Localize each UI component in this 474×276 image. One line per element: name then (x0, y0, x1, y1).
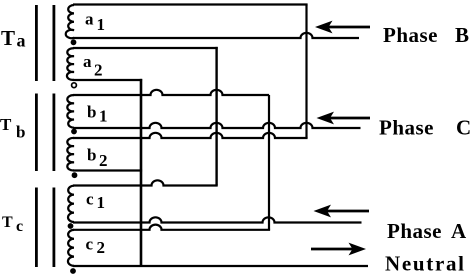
winding b1 (67, 95, 74, 128)
svg-text:b: b (87, 103, 96, 122)
wire a2 bottom to neutral bus V141 (73, 79, 142, 81)
wire a1 top to node V306 (73, 3, 308, 5)
svg-text:2: 2 (94, 61, 103, 80)
winding c2 (68, 230, 74, 266)
vertical V269 (b1 top to c2 top) (268, 95, 270, 230)
label Tb (0, 115, 25, 142)
svg-text:1: 1 (99, 107, 108, 126)
arrow Phase A (314, 205, 370, 218)
svg-text:a: a (85, 9, 94, 28)
svg-text:c: c (16, 218, 23, 235)
label b2 (87, 146, 108, 170)
label Ta (1, 26, 26, 51)
wire b1 top to V269, hops over V141 area and V216 (73, 90, 269, 95)
svg-text:c: c (86, 235, 94, 254)
wire Phase B (a1 bottom) with hop over V306 (73, 33, 359, 38)
svg-text:a: a (83, 52, 92, 71)
core Ta bars (35, 5, 55, 81)
vertical V306 (a1 top to b2 top) (305, 5, 307, 139)
arrow Neutral (points right) (311, 243, 366, 256)
svg-text:b: b (87, 146, 96, 165)
polarity dot b2 (72, 172, 78, 178)
svg-text:Phase: Phase (383, 23, 438, 47)
polarity dot c2 (70, 268, 76, 274)
winding b2 (67, 138, 74, 171)
svg-text:c: c (86, 190, 94, 209)
svg-text:Phase: Phase (379, 116, 434, 140)
svg-text:Neutral: Neutral (385, 252, 466, 276)
label a2 (83, 52, 103, 80)
svg-text:A: A (451, 219, 467, 243)
wire a2 top to node V216 (73, 47, 218, 49)
svg-text:a: a (17, 31, 26, 51)
svg-text:b: b (16, 123, 25, 142)
svg-text:2: 2 (99, 151, 108, 170)
wire b2 bottom to neutral bus V141 (73, 169, 142, 171)
svg-text:C: C (456, 116, 471, 140)
winding a2 (67, 48, 74, 80)
svg-text:B: B (455, 23, 469, 47)
wire Neutral (c2 bottom) (73, 265, 368, 267)
svg-text:T: T (0, 115, 12, 134)
wire Phase A (c1 bottom) hops over V141 area and V269 (73, 217, 362, 222)
wire c2 top to V269, hop near V141 (73, 225, 270, 230)
winding a1 (66, 5, 74, 38)
wire c1 top to V216, hop near V141 (73, 180, 218, 185)
svg-text:1: 1 (97, 15, 106, 34)
core Tb bars (35, 94, 55, 172)
wire b2 top from V306, hops over V269, V216, V141 area (73, 133, 308, 138)
neutral bus vertical V141 (140, 79, 143, 266)
core Tc bars (35, 188, 55, 268)
polarity dot b1 (71, 129, 77, 135)
label b1 (87, 103, 108, 126)
svg-text:1: 1 (97, 193, 106, 212)
arrow Phase C (317, 112, 371, 125)
svg-text:2: 2 (97, 238, 106, 257)
label a1 (85, 9, 105, 34)
svg-text:Phase: Phase (387, 219, 442, 243)
polarity dot a2 (open) (72, 83, 77, 88)
svg-text:T: T (1, 26, 15, 50)
label c1 (86, 190, 105, 213)
vertical V216 (a2 top to c1 top) (215, 47, 217, 186)
wire Phase C (b1 bottom) hops over V141 area, V216, V269, V306 (73, 123, 361, 128)
polarity dot a1 (71, 39, 77, 45)
svg-text:T: T (2, 214, 13, 231)
arrow Phase B (315, 21, 370, 34)
winding c1 (68, 186, 74, 222)
label Tc (2, 214, 23, 235)
polarity dot c1 (68, 223, 74, 229)
label c2 (86, 235, 106, 258)
